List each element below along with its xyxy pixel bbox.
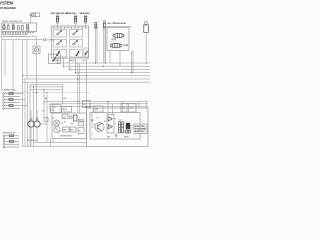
- svg-text:ST: ST: [64, 122, 66, 124]
- svg-text:P1: P1: [53, 118, 55, 120]
- svg-text:PULSE: PULSE: [124, 137, 129, 139]
- svg-text:FUSE: FUSE: [94, 109, 98, 111]
- svg-text:UIT DIAGRAM: UIT DIAGRAM: [0, 6, 16, 10]
- svg-text:C: C: [115, 123, 116, 125]
- svg-text:FUSE: FUSE: [32, 15, 36, 17]
- svg-text:YSTEM: YSTEM: [0, 0, 13, 5]
- svg-text:FU: FU: [43, 111, 45, 113]
- svg-text:NO.1 TURN SIG RELAY: NO.1 TURN SIG RELAY: [108, 22, 127, 25]
- svg-text:L1 L2: L1 L2: [118, 120, 122, 122]
- svg-text:B2: B2: [71, 124, 73, 126]
- svg-text:D: D: [79, 118, 80, 120]
- svg-text:R1: R1: [104, 121, 106, 123]
- svg-text:BK: BK: [45, 98, 47, 100]
- svg-text:FUSE 10A: FUSE 10A: [67, 12, 76, 15]
- svg-text:E: E: [92, 134, 93, 136]
- svg-text:FR TURN GND: FR TURN GND: [27, 140, 38, 142]
- svg-text:ASSY 5kV: ASSY 5kV: [135, 130, 146, 133]
- svg-text:F.B: F.B: [83, 104, 85, 106]
- svg-text:W/G: W/G: [64, 98, 67, 100]
- svg-text:GEN: GEN: [107, 137, 110, 139]
- svg-text:UNIT: UNIT: [51, 110, 55, 112]
